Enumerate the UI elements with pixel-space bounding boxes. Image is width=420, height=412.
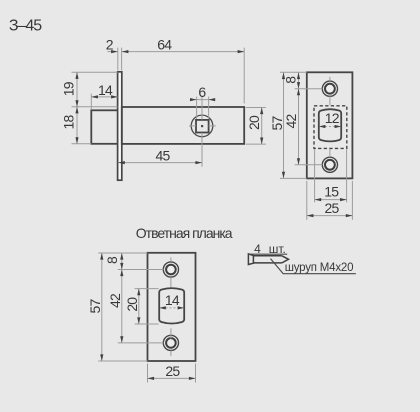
dim 14: dimension line and arrows: [91, 96, 117, 98]
dim 42 (strike): extension line at bottom hole: [118, 342, 164, 344]
dim 2: dimension line and arrow: [108, 51, 118, 53]
dim 57 (strike): extension line at plate bottom: [98, 360, 147, 362]
dim 20 (strike): dimension line and arrows: [138, 289, 140, 324]
dim 14: extension line at bolt left: [90, 94, 92, 110]
dim 2: extension lines above faceplate: [117, 48, 119, 71]
dim 64: extension line at right: [243, 48, 245, 104]
dim 25: dimension line and arrows: [307, 215, 353, 217]
dim 20: dimension line and arrows: [261, 108, 263, 145]
faceplate vertical centerline segments: [329, 77, 331, 81]
svg-text:19: 19: [61, 81, 77, 96]
svg-text:25: 25: [165, 363, 180, 379]
dim 20 (strike): extension lines: [135, 288, 159, 290]
dim 8 (faceplate): extension lines: [280, 71, 307, 73]
svg-text:6: 6: [198, 84, 206, 100]
dim 42 (faceplate): extension line at bottom hole: [295, 164, 323, 166]
svg-text:57: 57: [87, 299, 103, 314]
dim 19: dimension line and arrows: [76, 72, 78, 107]
strike plate top hole inner: [166, 265, 176, 275]
svg-text:45: 45: [156, 147, 171, 163]
faceplate edge (side view): [118, 72, 122, 180]
leader line to screw: [271, 259, 356, 274]
svg-text:14: 14: [98, 82, 113, 98]
svg-text:20: 20: [124, 297, 140, 312]
screw shaft: [253, 256, 282, 263]
faceplate front view plate: [307, 72, 353, 178]
svg-text:25: 25: [325, 200, 340, 216]
dim 20 (body height): extension lines: [246, 107, 266, 109]
dim 8: dimension line and arrows: [298, 73, 300, 89]
strike plate top hole outer: [163, 262, 178, 277]
spindle square 8mm: [196, 120, 209, 133]
screw head: [248, 254, 253, 265]
svg-text:8: 8: [104, 256, 120, 264]
strike plate bottom hole outer: [163, 335, 178, 350]
svg-text:20: 20: [246, 115, 262, 130]
dim 57 (faceplate): extension line at plate bottom: [280, 177, 307, 179]
svg-text:42: 42: [107, 293, 123, 308]
dim 6: extension lines above square: [196, 97, 198, 119]
dim 14 (strike): arrows and label: [162, 307, 183, 309]
strike plate rectangle: [148, 253, 196, 361]
svg-text:57: 57: [269, 116, 285, 131]
strike plate vertical centerline segments: [170, 257, 172, 261]
svg-text:2: 2: [106, 37, 114, 53]
dim 18: extension line at bolt bottom: [72, 143, 92, 145]
faceplate top screw hole outer: [322, 81, 337, 96]
dim 42: dimension line and arrows: [298, 89, 300, 165]
screw point: [282, 256, 289, 263]
strike plate barrel cutout: [159, 288, 184, 323]
spindle hole circle: [191, 115, 213, 137]
dim 42 (strike): dimension line and arrows: [121, 270, 123, 343]
svg-text:15: 15: [324, 184, 339, 200]
strike plate bottom hole inner: [166, 338, 176, 348]
dim 57 (strike): dimension line and arrows: [101, 253, 103, 361]
dim 25 (strike): dimension line and arrows: [148, 377, 196, 379]
dim 8 (strike): extension lines: [98, 252, 147, 254]
dim 12: arrows and label: [321, 126, 339, 128]
dim 25 (faceplate): extension lines: [306, 181, 308, 220]
svg-text:З–45: З–45: [9, 18, 42, 35]
svg-text:шуруп М4х20: шуруп М4х20: [285, 262, 354, 274]
quantity shelf line: [248, 253, 287, 255]
latch body (side view): [122, 107, 244, 144]
spindle horizontal centerline: [189, 125, 196, 127]
svg-text:42: 42: [283, 114, 299, 129]
faceplate top screw hole inner: [325, 84, 335, 94]
svg-text:Ответная планка: Ответная планка: [136, 225, 233, 241]
dim 6: dimension line and outside arrows: [190, 99, 215, 101]
dim 64: dimension line and arrows: [122, 51, 244, 53]
faceplate bottom screw hole inner: [325, 160, 335, 170]
svg-text:8: 8: [282, 76, 298, 84]
svg-text:18: 18: [61, 115, 77, 130]
dim 25 (strike): extension lines: [147, 364, 149, 383]
dim 15: extension lines: [314, 150, 316, 203]
svg-text:64: 64: [157, 37, 172, 53]
dim 15: dimension line and arrows: [315, 199, 347, 201]
dim 8 (strike): dimension line and arrows: [121, 253, 123, 270]
dim 19: extension lines: [72, 71, 118, 73]
faceplate bottom screw hole outer: [322, 157, 337, 172]
latch bolt (side view): [91, 110, 118, 144]
dim 18: dimension line and arrows: [76, 107, 78, 144]
dim 45: dimension line and arrows: [118, 162, 202, 164]
dashed cutout rectangle 15 wide: [314, 106, 347, 149]
latch cutout barrel shape: [319, 109, 341, 141]
svg-text:14: 14: [165, 292, 180, 308]
svg-text:12: 12: [325, 110, 340, 126]
dim 57: dimension line and arrows: [283, 73, 285, 179]
spindle vertical centerline: [201, 96, 203, 120]
